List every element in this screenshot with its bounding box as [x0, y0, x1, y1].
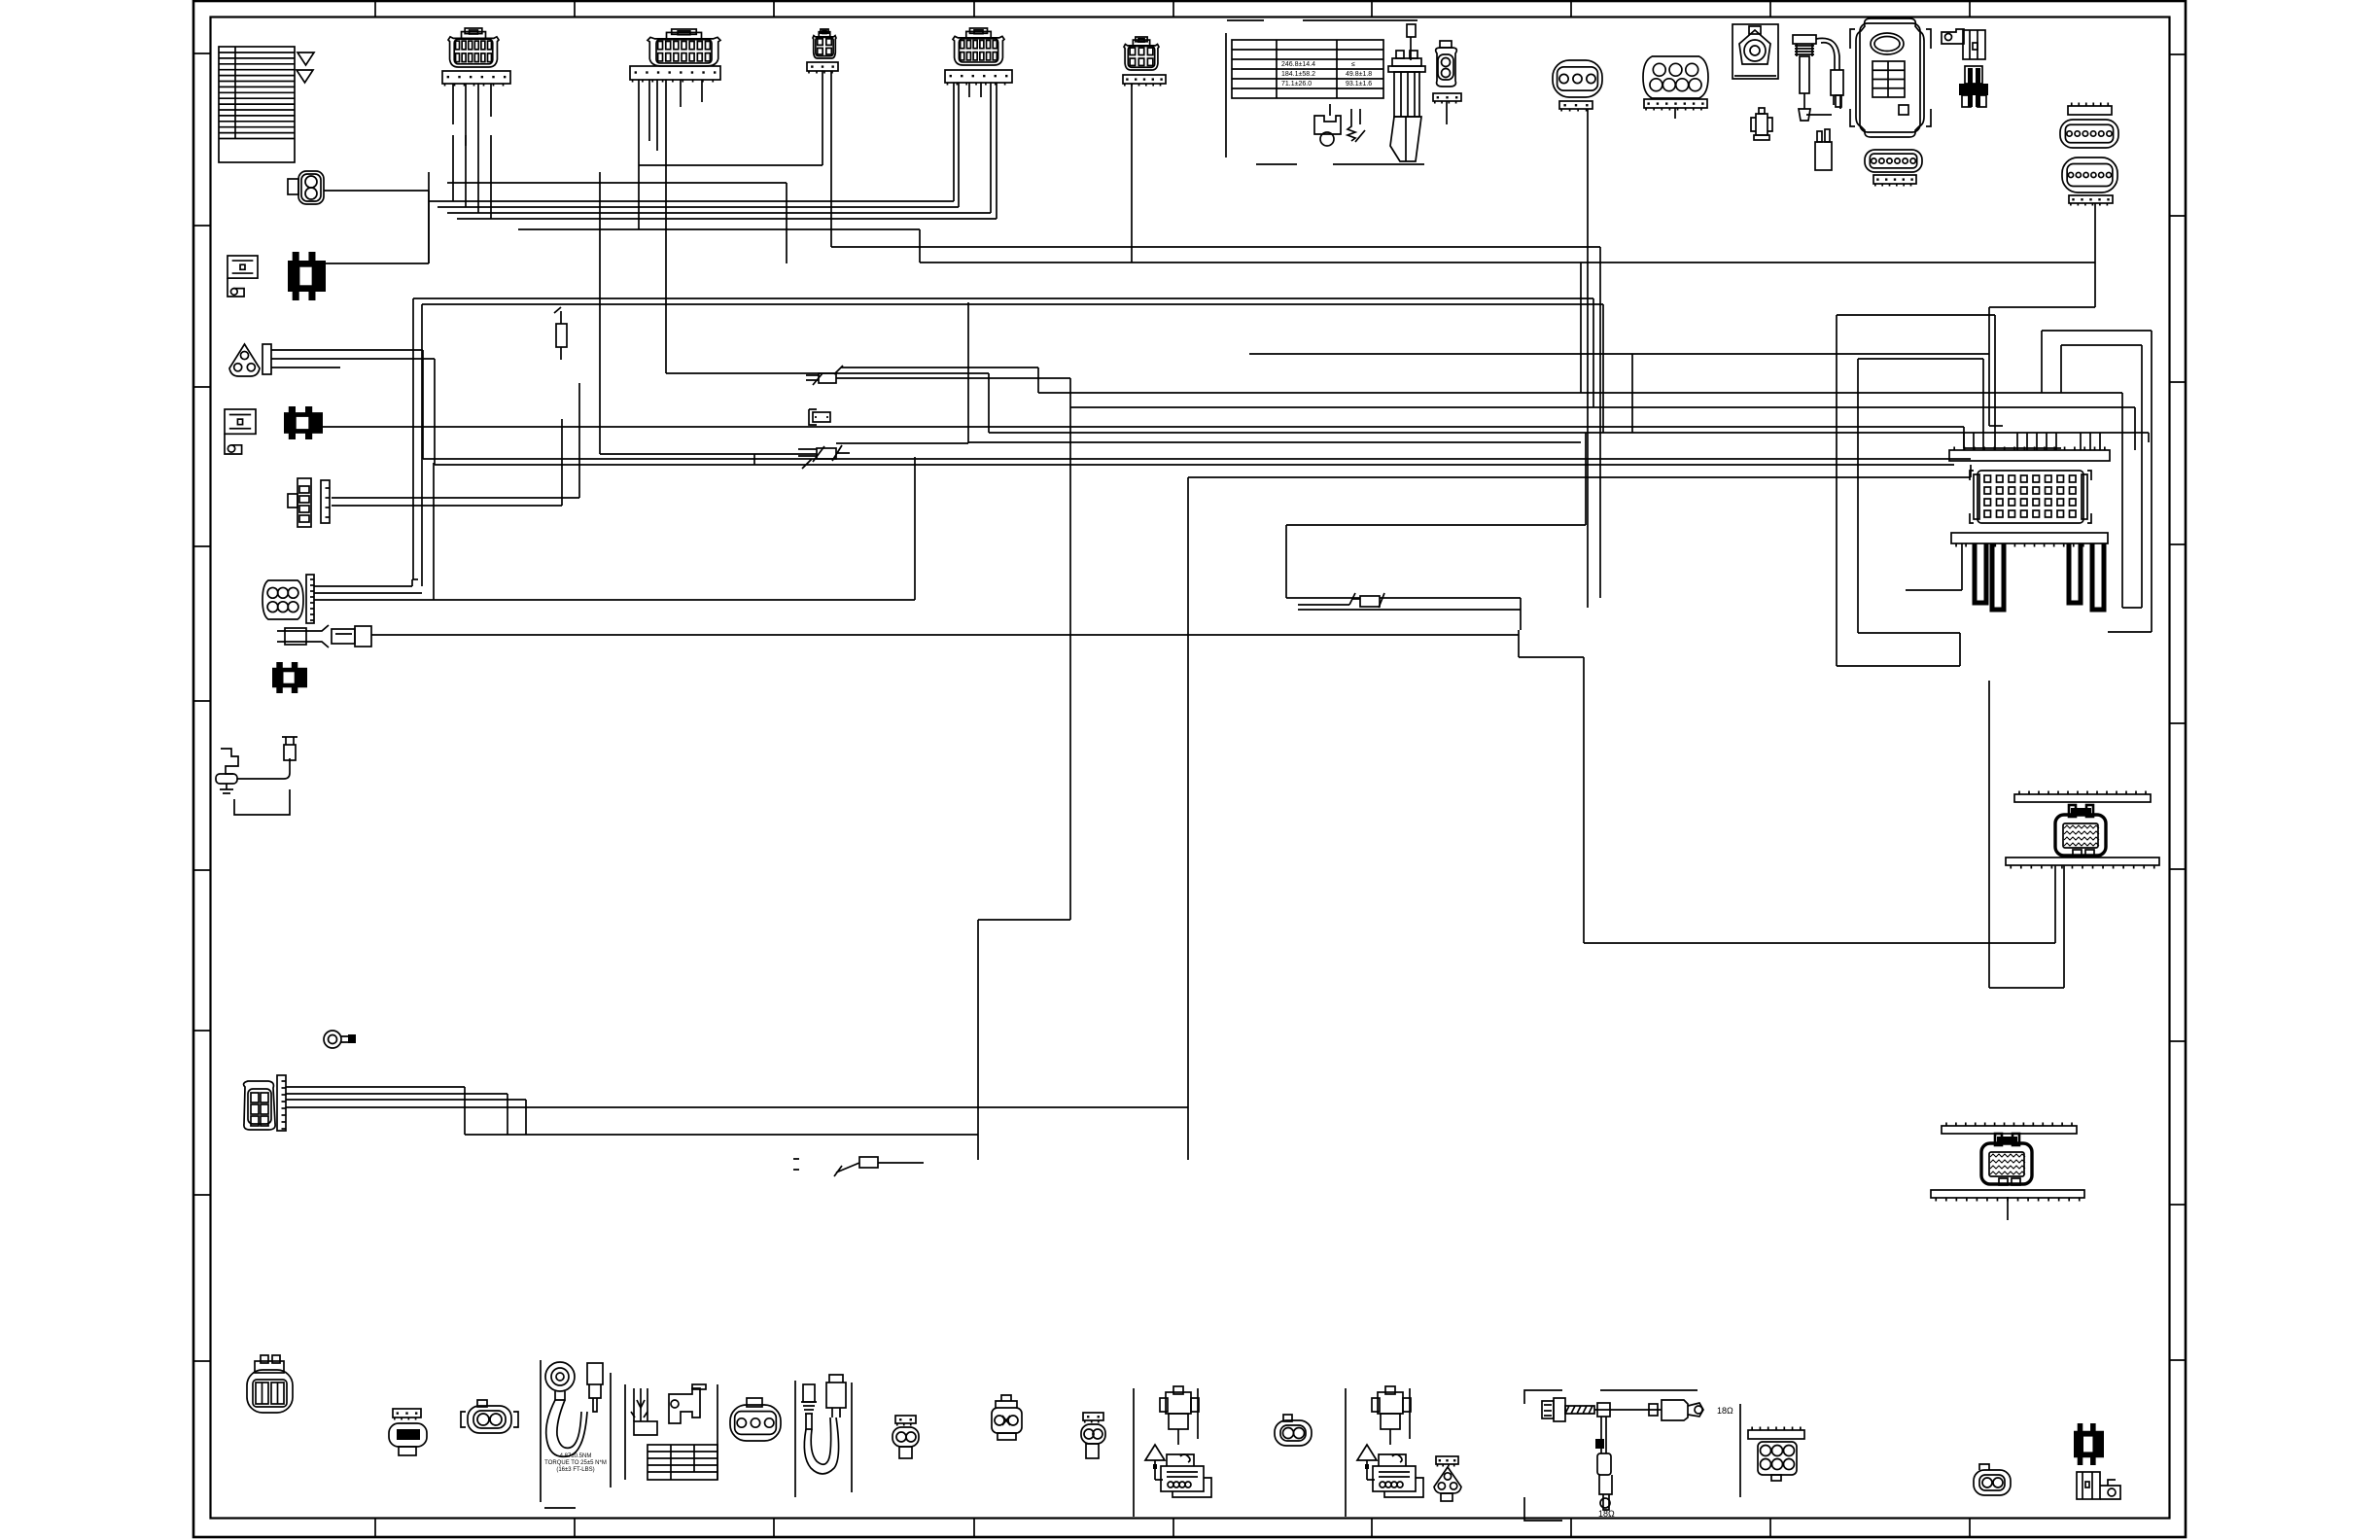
svg-text:18Ω: 18Ω — [1598, 1509, 1615, 1519]
inline diode D1 — [806, 366, 844, 385]
wire double bus y307/y313 — [413, 298, 1603, 586]
ECU top comb bar — [1949, 447, 2110, 462]
pump resistor zigzag — [1347, 109, 1365, 142]
wire J2-J3 link — [447, 165, 1600, 263]
wire double y472/478 — [423, 350, 1971, 465]
ignition coil assembly — [1793, 35, 1843, 121]
wire ECU right nest — [2042, 331, 2152, 632]
connector B5 small 2-pin — [895, 1416, 916, 1426]
small canister — [1815, 129, 1832, 170]
wire list table — [219, 47, 295, 162]
sensor M1 boxed — [1732, 24, 1778, 79]
connector J11 upper (with comb above) — [2068, 103, 2112, 116]
L3 wire stub — [326, 172, 429, 263]
connector E2 24-pin (right mid) — [2014, 791, 2151, 803]
L4 pin bar — [262, 344, 271, 374]
stub marks left of R4 — [793, 1159, 799, 1170]
connector J7 long drop wire — [1587, 109, 1589, 608]
svg-text:246.8±14.4: 246.8±14.4 — [1281, 61, 1315, 68]
L1 wire stub — [324, 190, 429, 192]
fuel pump assembly — [1388, 24, 1425, 161]
B4 latch — [747, 1398, 762, 1407]
connector B7 small 2-pin — [1083, 1413, 1103, 1423]
spec table — [1232, 40, 1383, 98]
ECU pin stubs above comb — [1964, 433, 2100, 450]
D2 wires right — [850, 443, 968, 600]
crank sensor detail box — [625, 1384, 717, 1480]
injector detail group 1 — [1134, 1386, 1211, 1517]
connector B4 oval 3-pin — [730, 1405, 781, 1441]
connector J2 leader wires — [639, 80, 702, 373]
L8 wires — [314, 586, 915, 600]
connector J1 12-pin shield — [448, 28, 499, 67]
svg-text:18Ω: 18Ω — [1717, 1406, 1733, 1416]
connector J9 with bracket — [1942, 29, 1985, 59]
svg-text:4.87±0.5NM: 4.87±0.5NM — [560, 1453, 592, 1459]
wire E3 stub — [2007, 1197, 2009, 1220]
connector J10 oval 6-pin — [1865, 150, 1922, 172]
connector L7 idle-air strip — [288, 478, 330, 527]
revision triangle 1 — [297, 52, 314, 65]
E2 bottom comb — [2006, 857, 2159, 869]
connector J4 pin ruler — [945, 70, 1012, 86]
svg-text:184.1±58.2: 184.1±58.2 — [1281, 71, 1315, 78]
connector J4 12-pin shield — [953, 28, 1004, 65]
connector J5 ruler — [1123, 75, 1166, 87]
svg-text:93.1±1.6: 93.1±1.6 — [1346, 81, 1372, 87]
D1 wires right — [841, 367, 1070, 378]
inline diode D2 — [798, 443, 850, 469]
connector L3 black plug — [288, 252, 326, 300]
connector J5 leader — [1131, 84, 1133, 262]
connector B9 triangle with bar — [1436, 1456, 1458, 1467]
O2 sensor pigtail detail — [795, 1375, 852, 1497]
wire y491 run — [1188, 465, 1971, 1160]
connector J1 pin ruler — [442, 71, 510, 87]
svg-text:≤: ≤ — [1351, 61, 1355, 68]
connector J8 ruler — [1644, 99, 1707, 111]
revision triangle 2 — [297, 70, 313, 83]
connector J6 round 2-pin — [1436, 41, 1457, 87]
connector J6 leader — [1446, 101, 1448, 124]
wire E2 drop from ECU — [1989, 681, 2064, 988]
connector B8 oval 2-pin — [1275, 1415, 1312, 1446]
connector J11 lower — [2062, 157, 2117, 192]
wire bus level A — [429, 135, 997, 263]
connector L9 black plug — [272, 662, 307, 693]
E3 bottom comb — [1931, 1190, 2084, 1202]
ECU bottom comb bar — [1951, 533, 2108, 547]
svg-text:TORQUE TO 25±5 N*M: TORQUE TO 25±5 N*M — [544, 1460, 607, 1466]
spec table text — [1281, 61, 1372, 87]
connector B2 with bar — [393, 1409, 421, 1420]
connector J2 pin ruler — [630, 66, 720, 83]
zone tick marks right edge — [2170, 54, 2187, 1360]
connector J11 drop wire — [2094, 203, 2096, 307]
component M2 small valve — [1751, 108, 1772, 140]
wire ECU left nest — [1837, 315, 1995, 666]
zone tick marks bottom edge — [375, 1519, 1970, 1538]
fuel pump detail brackets — [1226, 20, 1424, 164]
wire L8 vertical risers — [412, 463, 434, 600]
ECM module — [1850, 18, 1931, 137]
wire relay run with steps to ECU — [1519, 630, 2055, 943]
connector B3 oval 2-pin — [461, 1400, 518, 1433]
L8 pin bar — [306, 575, 314, 623]
relay R2 — [332, 626, 371, 647]
injector-style component below J9 — [1959, 66, 1988, 107]
L10 pin bar — [277, 1075, 286, 1131]
connector L10 6-pin — [244, 1081, 276, 1130]
connector J4 leader wires — [954, 83, 997, 219]
ECU heavy jumper U-loops right — [2069, 543, 2104, 610]
connector L5 hollow plug — [225, 409, 256, 454]
connector B13 L-plug — [2077, 1472, 2120, 1499]
wire y384 run — [666, 372, 989, 374]
connector B1 oval 4-pin — [247, 1355, 293, 1413]
wire J11 to ECU — [1989, 307, 2095, 426]
wire y467 step — [600, 172, 817, 465]
connector J3 ruler — [807, 62, 838, 74]
connector B6 3-pin — [992, 1395, 1022, 1440]
wire center box loop — [1286, 433, 1586, 630]
connector L1 round 2-cav — [288, 171, 324, 204]
resistor R3 vertical — [554, 307, 567, 360]
connector L8 round 6-pin — [262, 580, 303, 619]
connector J7 oval 3-pin — [1553, 60, 1602, 97]
wire y439 long run — [384, 427, 2061, 448]
connector L4 triangle 3-pin — [229, 344, 260, 376]
wire y364 run — [1249, 354, 1989, 433]
connector J3 small 4-pin — [813, 29, 836, 58]
crank sensor spec mini table — [647, 1445, 717, 1480]
inline fuse F1 — [809, 409, 830, 425]
wire below-ECU stub — [1906, 543, 1962, 590]
ECU heavy jumper U-loops left — [1975, 543, 2004, 610]
wire mid horizontal y270 — [920, 229, 2095, 598]
zone tick marks top edge — [375, 1, 1970, 17]
knock sensor torque note — [544, 1453, 607, 1473]
svg-text:(16±3 FT-LBS): (16±3 FT-LBS) — [556, 1467, 594, 1473]
zone tick marks left edge — [193, 53, 211, 1361]
connector J1 leader wires — [453, 84, 491, 146]
inline resistor R4 (bottom middle) — [834, 1157, 924, 1176]
injector detail group 2 — [1346, 1386, 1423, 1517]
L4 wire stubs — [271, 350, 435, 367]
wire vertical x1101 drop — [978, 378, 1070, 1160]
connector J5 6-pin shield — [1124, 37, 1159, 70]
svg-text:49.8±1.8: 49.8±1.8 — [1346, 71, 1372, 78]
wire J2 drop to y236 — [518, 117, 920, 229]
connector E3 24-pin (lower right) — [1942, 1123, 2077, 1135]
spark plug test lead detail — [216, 737, 297, 815]
wire L7 pair to risers — [332, 383, 579, 506]
knock sensor detail box — [541, 1360, 611, 1508]
wire long horizontals to ECU — [968, 302, 2149, 608]
relay R1 — [277, 625, 329, 647]
wire L10 runs — [286, 1087, 1188, 1135]
pump motor symbol — [1314, 104, 1341, 146]
ring terminal G1 — [324, 1031, 356, 1048]
connector B10 square 6-pin comb — [1748, 1427, 1804, 1440]
connector J8 round 7-pin — [1643, 56, 1708, 98]
connector J6 ruler — [1433, 93, 1461, 104]
connector J8 leader — [1674, 108, 1676, 119]
R2 wire — [371, 634, 1519, 636]
connector J10 ruler — [1873, 175, 1916, 187]
connector L6 black plug — [284, 406, 323, 439]
ECU main connector grid — [1970, 471, 2091, 523]
inline valve V1 (center) — [1349, 593, 1384, 608]
connector L2 hollow plug — [227, 256, 258, 297]
connector J3 leaders — [822, 71, 831, 247]
svg-text:71.1±26.0: 71.1±26.0 — [1281, 81, 1312, 87]
connector J11 lower ruler — [2069, 195, 2113, 206]
connector B11 oval (far right pair left) — [1974, 1464, 2011, 1495]
cam sensor T-harness detail box — [1524, 1390, 1740, 1521]
connector J7 ruler — [1559, 101, 1592, 112]
connector J2 14-pin shield — [647, 29, 720, 66]
wire central vertical bundle — [1581, 262, 1603, 433]
connector B12 black plug — [2074, 1423, 2104, 1465]
B9 foot — [1441, 1493, 1452, 1501]
L6 wire stub — [323, 426, 384, 428]
